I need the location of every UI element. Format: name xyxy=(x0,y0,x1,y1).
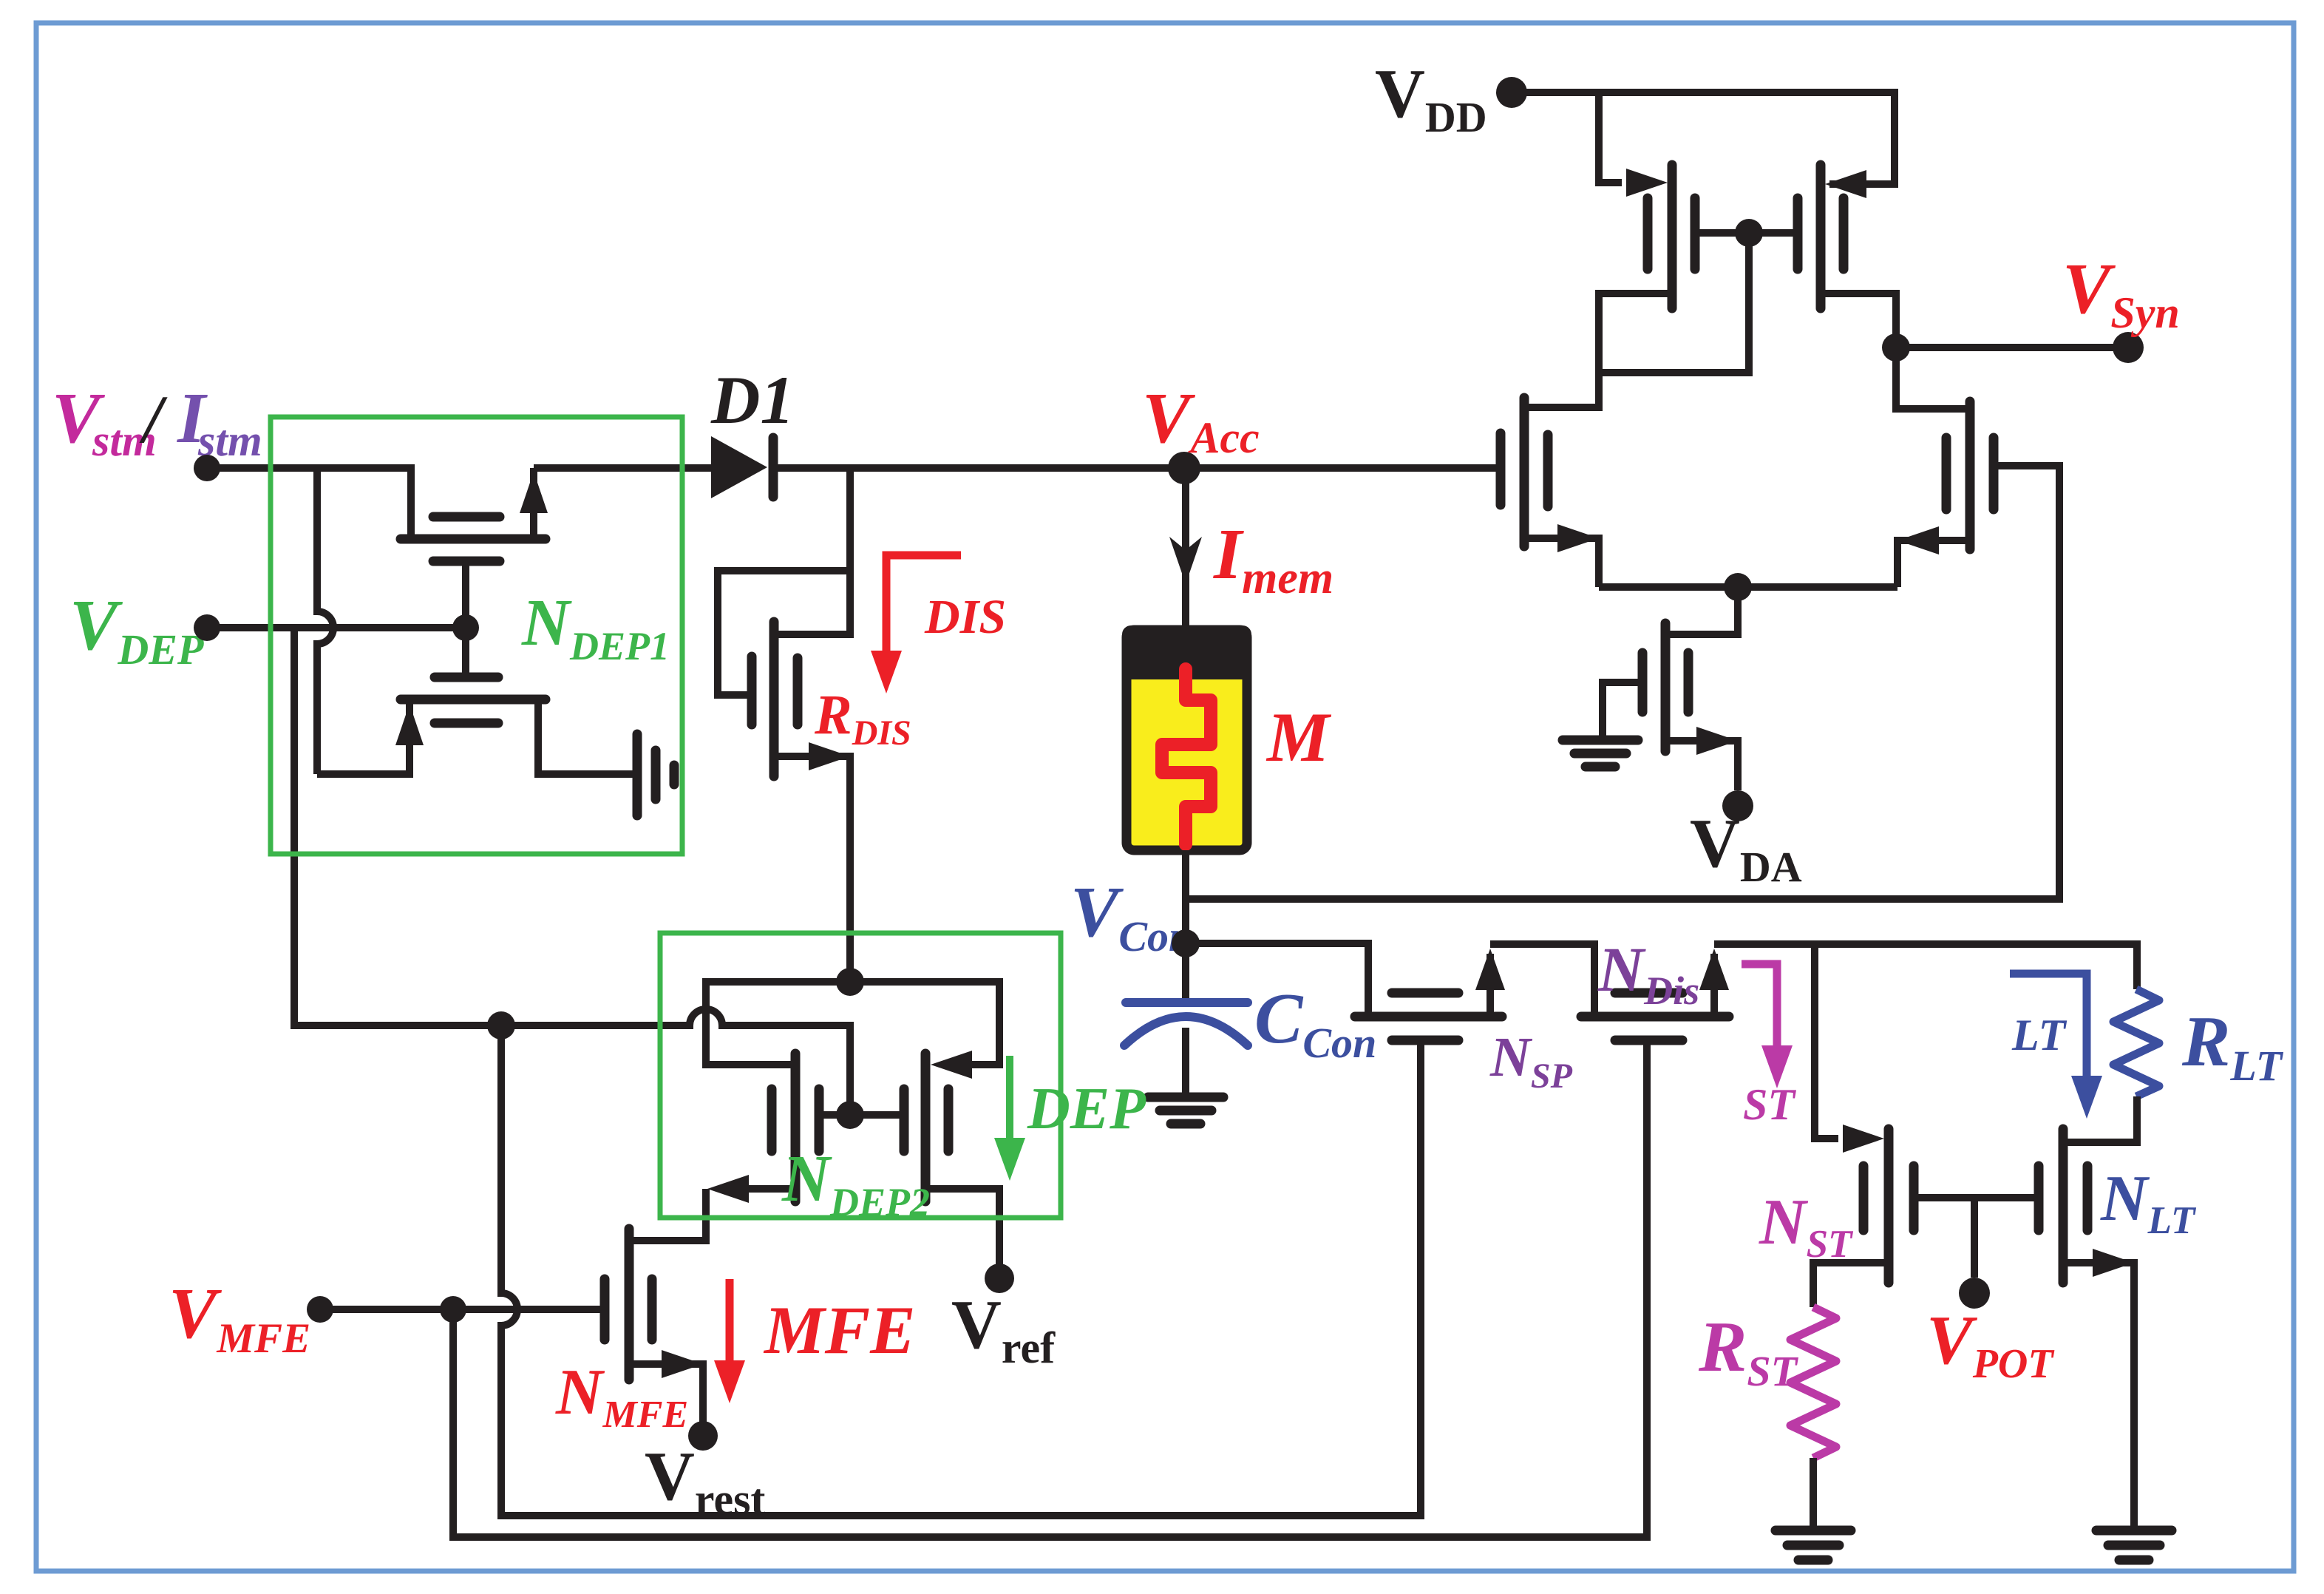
transistor NLT: channel xyxy=(2059,1129,2068,1283)
resistor RLT xyxy=(2113,989,2159,1096)
wire NDEP2 right drain to Vref xyxy=(925,1189,999,1264)
node VAcc junction dot xyxy=(1168,452,1200,484)
transistor NB bias: drain lead xyxy=(1665,587,1738,634)
transistor NDEP1 lower: flank bar bottom xyxy=(435,719,498,728)
wire RDIS drain lead xyxy=(774,468,850,634)
ground (NLT) xyxy=(2096,1526,2172,1536)
svg-text:ST: ST xyxy=(1743,1080,1796,1129)
arrow DIS current direction xyxy=(886,555,961,655)
transistor N2: gate bar xyxy=(1989,438,1999,509)
wire junction to NDEP2 left drain xyxy=(706,982,850,1065)
memristor M body xyxy=(1127,630,1247,850)
transistor N1: source lead with arrow xyxy=(1524,538,1599,587)
transistor NB: flank bar xyxy=(1684,653,1693,712)
transistor NSP: source lead with arrow xyxy=(1487,954,1494,1017)
wire RLT bottom to NLT drain xyxy=(2063,1096,2137,1142)
svg-text:MFE: MFE xyxy=(763,1292,916,1368)
svg-text:D1: D1 xyxy=(710,362,794,438)
wire NST drain from ST node with arrow xyxy=(1815,944,1838,1139)
wire P1 drain to N1 drain xyxy=(1524,294,1672,407)
transistor NDEP1 lower: channel xyxy=(401,695,546,705)
transistor NMFE: flank bar xyxy=(648,1279,657,1340)
node NDEP2 gate junction dot xyxy=(836,1101,864,1129)
transistor NDis: flank bar top xyxy=(1615,988,1682,998)
box NDEP2 green outline xyxy=(660,933,1061,1218)
wire NST-NLT gate tie xyxy=(1914,1194,2039,1201)
transistor NDEP2 left: source lead with arrow down to NMFE xyxy=(749,1185,795,1193)
wire NST source to RST xyxy=(1813,1263,1889,1307)
node NDEP1 gate junction dot xyxy=(452,614,479,641)
wire NMFE drain lead xyxy=(629,1237,706,1244)
node VSyn terminal dot xyxy=(2113,332,2144,363)
node Vstm terminal dot xyxy=(194,455,220,481)
transistor NSP: channel xyxy=(1355,1012,1502,1022)
transistor P2: flank bar xyxy=(1839,198,1849,269)
transistor NSP: flank bar top xyxy=(1392,988,1458,998)
transistor P2 source arrow (right PMOS) xyxy=(1825,170,1866,198)
transistor NDEP1 upper: gate bar bottom xyxy=(433,557,500,566)
transistor P2: gate bar xyxy=(1793,198,1803,269)
wire Vstm branch vertical with hop over VDEP wire xyxy=(317,468,333,774)
wire VDEP to NDEP1 gates xyxy=(207,624,466,631)
transistor N2: flank bar xyxy=(1942,438,1951,509)
wire memristor bottom to VCon xyxy=(1182,850,1189,943)
wire NSP source to NDis drain xyxy=(1490,944,1594,1017)
wire diff tail xyxy=(1599,583,1897,591)
wire junction to NDEP2 right source with arrow xyxy=(850,982,999,1065)
wire VCon to capacitor xyxy=(1182,943,1189,1003)
transistor NDEP1 upper: source lead with arrow xyxy=(530,468,537,539)
transistor N1: flank bar xyxy=(1543,435,1553,506)
node VCon junction dot xyxy=(1172,929,1200,957)
node RDIS-NDEP2 junction dot xyxy=(836,968,864,996)
wire VSyn output xyxy=(1896,344,2128,351)
svg-text:DEP: DEP xyxy=(1027,1076,1146,1142)
ground (bias NB) xyxy=(1563,736,1638,745)
wire VDD rail xyxy=(1512,92,1895,184)
arrow LT current direction xyxy=(2010,974,2087,1080)
node VDEP terminal dot xyxy=(194,614,220,641)
wire VCon net to right diff gate xyxy=(1186,466,2059,899)
capacitor CCon curved plate xyxy=(1124,1017,1248,1045)
wire gate tie down to left drain (diode connection) xyxy=(1599,233,1749,373)
transistor NDEP2 left: channel xyxy=(791,1054,801,1201)
transistor NDEP2 left: flank bar xyxy=(815,1089,824,1151)
ground (RST) xyxy=(1776,1526,1851,1536)
wire NDEP1 gate stub lower xyxy=(462,628,469,677)
node VSyn junction dot xyxy=(1882,333,1910,362)
transistor RDIS: source lead with arrow xyxy=(774,756,850,982)
transistor NDis: gate bar bottom xyxy=(1615,1036,1682,1045)
wire gate tie to VPOT xyxy=(1971,1198,1978,1278)
wire Vstm input to NDEP1 drain xyxy=(207,468,411,539)
transistor NDEP1 lower: source lead with arrow to Vstm branch xyxy=(317,699,410,774)
wire D1 cathode to VAcc and diff gate xyxy=(769,464,1497,472)
transistor P1: channel xyxy=(1668,165,1677,308)
transistor N2: channel xyxy=(1965,401,1975,549)
wire RDIS gate tie xyxy=(718,571,850,695)
wire VCon to NSP drain xyxy=(1186,943,1368,1017)
transistor NDEP1 upper: flank bar top xyxy=(433,512,500,522)
capacitor CCon top plate xyxy=(1126,998,1248,1007)
transistor NLT: source lead with arrow xyxy=(2063,1263,2134,1526)
transistor NDEP2 left: gate bar xyxy=(767,1089,777,1151)
transistor RDIS: gate bar xyxy=(747,657,757,725)
svg-text:M: M xyxy=(1265,698,1332,776)
transistor NMFE: source lead with arrow xyxy=(629,1364,703,1422)
node VDA terminal dot xyxy=(1722,790,1753,821)
node PMOS gate junction dot xyxy=(1735,219,1763,247)
wire VMFE to NMFE gate xyxy=(320,1306,605,1313)
wire PMOS gate tie xyxy=(1695,229,1798,237)
arrow MFE current direction xyxy=(726,1279,734,1364)
transistor RDIS: flank bar xyxy=(793,658,803,725)
wire VAcc down to memristor with Imem arrow xyxy=(1182,468,1189,630)
transistor NST: channel xyxy=(1884,1129,1894,1283)
node VPOT terminal dot xyxy=(1959,1278,1990,1309)
transistor NB: channel xyxy=(1661,623,1671,751)
wire P2 drain to VSyn node xyxy=(1821,294,1970,409)
node Vref terminal dot xyxy=(985,1264,1014,1293)
wire NB gate to ground xyxy=(1603,682,1642,736)
transistor NLT: flank bar right xyxy=(2083,1166,2093,1230)
transistor NDis: channel xyxy=(1581,1012,1729,1022)
transistor NDEP1 upper: channel xyxy=(401,535,546,544)
node VMFE terminal dot xyxy=(307,1296,333,1323)
wire N1 drain lead xyxy=(1524,373,1599,407)
wire NDEP1 source to diode D1 xyxy=(534,464,711,472)
transistor NLT: gate bar left xyxy=(2034,1166,2044,1230)
transistor P1: gate bar xyxy=(1691,198,1700,269)
node Vrest terminal dot xyxy=(688,1421,718,1451)
transistor NDis: source lead with arrow xyxy=(1710,954,1718,1017)
transistor N1: gate bar xyxy=(1496,433,1506,505)
wire NDEP1 gate stub upper xyxy=(462,561,469,628)
transistor NB: source lead with arrow to VDA xyxy=(1665,741,1738,790)
transistor RDIS: channel xyxy=(769,622,779,776)
transistor N1: channel xyxy=(1520,398,1529,546)
transistor NSP: gate bar bottom xyxy=(1392,1036,1458,1045)
ground (NDEP1, rotated) xyxy=(633,734,642,815)
wire VDEP net to NDEP2 gates with hop xyxy=(501,1009,850,1115)
wire RST to ground xyxy=(1810,1458,1817,1526)
node VDD terminal dot xyxy=(1496,77,1527,108)
ground (CCon) xyxy=(1148,1093,1223,1102)
box NDEP1 green outline xyxy=(271,417,682,854)
node lower-left junction dot xyxy=(487,1011,515,1040)
diode D1 xyxy=(711,436,767,498)
wire NDEP1 lower drain to ground xyxy=(538,699,633,774)
transistor N2: source lead with arrow xyxy=(1897,540,1970,587)
node VMFE branch junction dot xyxy=(440,1296,466,1323)
wire VMFE branch down (to NDis gate) xyxy=(453,1040,1647,1537)
transistor NMFE: channel xyxy=(625,1229,634,1380)
transistor NDEP2 right: gate bar xyxy=(900,1089,909,1151)
wire VDEP branch down to lower junction xyxy=(294,628,501,1025)
resistor RST xyxy=(1790,1307,1836,1458)
arrow ST current direction xyxy=(1742,964,1777,1050)
transistor P1 source arrow (left PMOS) xyxy=(1626,169,1668,197)
wire NDEP2 gate tie xyxy=(819,1111,904,1119)
wire VDD branch to left PMOS source xyxy=(1599,92,1622,183)
svg-text:LT: LT xyxy=(2011,1011,2068,1059)
wire capacitor to ground xyxy=(1182,1028,1189,1093)
transistor NDEP2 right: channel xyxy=(921,1054,931,1201)
transistor NB: gate bar xyxy=(1638,653,1648,712)
transistor P1: flank bar xyxy=(1643,198,1653,269)
arrow DEP current direction xyxy=(1006,1056,1013,1142)
transistor NST: gate bar left xyxy=(1859,1166,1869,1230)
transistor NDEP1 lower: flank bar top xyxy=(435,673,498,682)
transistor NST: gate bar right xyxy=(1909,1166,1919,1230)
transistor P2: channel xyxy=(1816,165,1826,308)
svg-text:DIS: DIS xyxy=(924,590,1006,644)
wire VDEP-branch down with hop over VMFE wire (to NSP gate) xyxy=(501,1025,1421,1516)
transistor NMFE: gate bar xyxy=(600,1279,610,1340)
wire NDis source to RLT / NST node xyxy=(1714,944,2137,989)
node diff tail junction dot xyxy=(1724,573,1752,601)
transistor NDEP2 right: flank bar xyxy=(944,1089,954,1151)
